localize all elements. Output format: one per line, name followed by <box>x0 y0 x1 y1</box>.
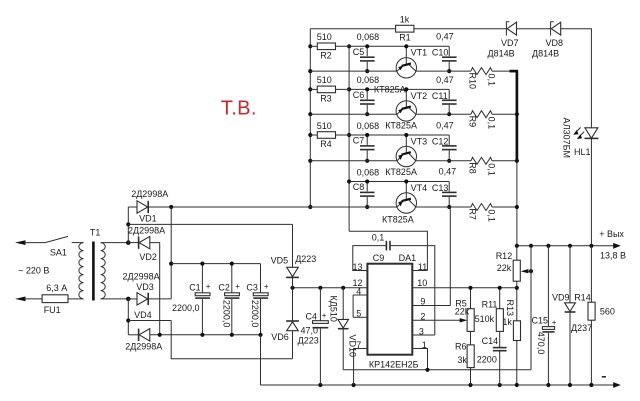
svg-text:0,068: 0,068 <box>357 75 380 85</box>
wire minus drop to ground rail <box>260 335 262 385</box>
wire base line row1 <box>336 45 450 47</box>
svg-text:9: 9 <box>420 297 425 307</box>
pin 9 <box>412 207 450 307</box>
svg-text:0,47: 0,47 <box>439 166 457 176</box>
wire top rail <box>310 29 591 128</box>
diode VD3 <box>123 272 172 306</box>
svg-text:R1: R1 <box>399 32 411 42</box>
wire row3 to output <box>492 160 517 162</box>
svg-text:C1: C1 <box>189 283 201 293</box>
svg-text:2Д2998А: 2Д2998А <box>125 341 162 351</box>
svg-text:+: + <box>552 318 557 327</box>
transistor VT2 <box>385 87 427 130</box>
pin 7 <box>354 340 368 385</box>
svg-text:0,068: 0,068 <box>357 167 380 177</box>
svg-text:2Д2998А: 2Д2998А <box>128 225 165 235</box>
svg-text:R2: R2 <box>320 50 332 60</box>
wire HL1 to output rail <box>590 139 592 246</box>
diode VD10 <box>329 288 358 370</box>
zener diode VD8 <box>532 22 563 59</box>
svg-text:2200,0: 2200,0 <box>222 300 232 328</box>
resistor R8 <box>468 157 497 175</box>
node gnd-C15 <box>546 383 550 387</box>
svg-text:R12: R12 <box>496 251 513 261</box>
svg-text:1: 1 <box>422 340 427 350</box>
svg-text:VD6: VD6 <box>271 332 289 342</box>
capacitor C1 <box>172 262 211 337</box>
transistor VT4 <box>382 179 427 224</box>
capacitor C12 <box>432 120 457 163</box>
svg-text:0,1: 0,1 <box>486 117 496 130</box>
svg-text:10: 10 <box>417 278 427 288</box>
pin 1 <box>412 340 427 370</box>
resistor R4 <box>310 121 335 149</box>
svg-text:0,47: 0,47 <box>436 75 454 85</box>
node gnd-pin7 <box>352 383 356 387</box>
svg-text:VT2: VT2 <box>411 91 428 101</box>
svg-text:+: + <box>264 282 269 291</box>
transformer T1 secondary <box>101 243 106 299</box>
node gnd-R13 <box>515 383 519 387</box>
node rail-VD9 <box>568 244 572 248</box>
resistor R11 <box>475 286 504 347</box>
node basebus row2 <box>347 87 351 91</box>
resistor R1 <box>396 14 414 42</box>
svg-text:SA1: SA1 <box>50 247 67 257</box>
resistor R2 <box>310 32 335 60</box>
svg-text:~ 220 В: ~ 220 В <box>18 265 49 275</box>
wire row4 right <box>416 206 471 208</box>
resistor R13 <box>502 300 520 386</box>
switch SA1 <box>15 236 84 257</box>
node basebus row4 <box>347 179 351 183</box>
capacitor C5 <box>353 32 379 73</box>
svg-text:R3: R3 <box>320 94 332 104</box>
wire row1 right <box>416 70 471 72</box>
svg-text:Т.В.: Т.В. <box>221 97 257 119</box>
node pin12-VD10 <box>341 286 345 290</box>
node gnd-R6 <box>468 383 472 387</box>
svg-text:11: 11 <box>418 262 427 272</box>
diode VD9 <box>552 246 592 385</box>
node gnd-C4 <box>318 383 322 387</box>
fuse FU1 <box>15 283 84 315</box>
svg-text:2200,0: 2200,0 <box>250 300 260 328</box>
resistor R6 <box>455 341 474 385</box>
svg-text:R11: R11 <box>482 300 498 310</box>
pin 5 <box>353 295 367 319</box>
text T.B. red label <box>221 97 257 119</box>
pin 13 <box>353 262 363 272</box>
wire AC1 to VD5 line <box>128 223 292 225</box>
svg-text:VD9: VD9 <box>552 293 570 303</box>
transistor VT3 <box>385 133 427 177</box>
svg-text:13,8 В: 13,8 В <box>600 250 626 260</box>
wire secondary top to AC1 node <box>101 240 131 245</box>
svg-text:C4: C4 <box>306 311 318 321</box>
svg-text:VD4: VD4 <box>134 310 152 320</box>
svg-text:VD7: VD7 <box>501 38 519 48</box>
svg-text:HL1: HL1 <box>574 147 591 157</box>
svg-text:R10: R10 <box>468 73 478 90</box>
svg-text:C2: C2 <box>218 283 230 293</box>
pin 12 <box>293 278 368 288</box>
wire row3 left <box>310 160 396 162</box>
svg-text:КД510: КД510 <box>329 296 339 322</box>
resistor R14 <box>574 246 615 385</box>
svg-text:R7: R7 <box>468 208 478 220</box>
node pin12-VD5 <box>290 286 294 290</box>
svg-text:0,1: 0,1 <box>486 74 496 87</box>
text mains voltage <box>18 265 49 275</box>
node bus-R2 <box>308 44 312 48</box>
svg-text:3k: 3k <box>457 355 467 365</box>
node VD2-VD4 minus <box>158 333 162 337</box>
wire base bus <box>348 46 350 231</box>
capacitor C6 <box>353 75 379 116</box>
svg-text:+: + <box>206 282 211 291</box>
svg-text:Д237: Д237 <box>571 323 592 333</box>
capacitor C14 <box>477 336 507 385</box>
svg-text:22k: 22k <box>497 263 512 273</box>
svg-text:47,0: 47,0 <box>301 326 319 336</box>
svg-text:0,068: 0,068 <box>357 121 380 131</box>
svg-text:C5: C5 <box>353 47 365 57</box>
pin 2 arrow to R5 <box>412 312 467 323</box>
svg-text:R14: R14 <box>574 293 591 303</box>
node rail-R12 <box>515 244 519 248</box>
wire pin1-wiper line <box>343 368 531 372</box>
svg-text:510k: 510k <box>475 314 495 324</box>
capacitor C9 <box>353 232 435 335</box>
svg-text:C11: C11 <box>432 91 448 101</box>
wire row3 right <box>416 160 471 162</box>
wire row1 to output <box>492 70 518 72</box>
node rail-HL1-R14 <box>589 244 593 248</box>
svg-text:5: 5 <box>356 309 361 319</box>
svg-text:Д814В: Д814В <box>532 49 559 59</box>
wire plus vertical upper <box>169 207 173 299</box>
svg-text:2200: 2200 <box>477 354 497 364</box>
svg-text:КТ825А: КТ825А <box>385 121 417 131</box>
wire output vertical (thick) <box>516 71 519 161</box>
svg-text:0,068: 0,068 <box>357 32 380 42</box>
svg-text:C12: C12 <box>432 136 449 146</box>
svg-text:Д223: Д223 <box>295 254 316 264</box>
diode VD5 <box>271 224 317 287</box>
svg-text:R13: R13 <box>505 300 515 317</box>
pin 4 <box>353 286 367 296</box>
svg-text:АЛ307БМ: АЛ307БМ <box>562 118 572 159</box>
node gnd-C14 <box>498 383 502 387</box>
transformer T1 primary <box>79 228 101 299</box>
svg-text:R9: R9 <box>468 116 478 128</box>
diode VD4 <box>125 310 260 351</box>
svg-text:VT1: VT1 <box>411 48 428 58</box>
svg-text:2Д2998А: 2Д2998А <box>131 189 168 199</box>
wire left collector bus <box>309 29 311 207</box>
svg-text:R4: R4 <box>320 139 332 149</box>
svg-text:VD5: VD5 <box>271 256 289 266</box>
capacitor C2 <box>218 262 240 337</box>
svg-text:2200,0: 2200,0 <box>172 303 200 313</box>
wire row4 to output <box>492 206 517 208</box>
wire AC2 to VD6 link <box>128 320 171 322</box>
zener diode VD7 <box>488 22 519 59</box>
node bus-R4 <box>308 133 312 137</box>
svg-text:Д814В: Д814В <box>488 49 515 59</box>
node bus-row3 <box>308 159 312 163</box>
svg-text:FU1: FU1 <box>44 305 61 315</box>
resistor R9 <box>468 111 497 129</box>
svg-text:C10: C10 <box>432 48 449 58</box>
svg-text:560: 560 <box>600 307 615 317</box>
svg-text:0,1: 0,1 <box>486 209 496 222</box>
svg-text:510: 510 <box>317 75 332 85</box>
resistor R3 <box>310 75 335 103</box>
svg-text:0,47: 0,47 <box>436 120 454 130</box>
resistor R7 <box>468 204 497 222</box>
svg-text:VD10: VD10 <box>348 335 358 358</box>
wire output rail <box>517 243 621 249</box>
diode VD2 <box>128 225 165 334</box>
svg-text:DA1: DA1 <box>399 253 417 263</box>
resistor R10 <box>468 68 497 89</box>
node bus-row2 <box>308 112 312 116</box>
LED HL1 <box>562 118 599 159</box>
svg-text:VD2: VD2 <box>139 252 157 262</box>
pin 10 <box>412 278 517 288</box>
svg-text:2: 2 <box>420 312 425 322</box>
node pin12-C4 <box>318 286 322 290</box>
wire ground rail <box>261 382 621 388</box>
svg-text:C15: C15 <box>532 316 549 326</box>
svg-text:КР142ЕН2Б: КР142ЕН2Б <box>369 359 419 369</box>
wire row2 left <box>310 113 396 115</box>
svg-text:+: + <box>235 282 240 291</box>
node pin10-R12R13 <box>515 286 519 290</box>
wire base line row3 <box>336 134 450 136</box>
node basebus row1 <box>347 44 351 48</box>
capacitor C7 <box>353 121 379 163</box>
svg-text:R8: R8 <box>468 162 478 174</box>
svg-text:C14: C14 <box>482 336 499 346</box>
node R8-output <box>515 159 519 163</box>
resistor R5 trimmer <box>455 286 474 345</box>
wire secondary bottom to AC2 node <box>101 297 131 302</box>
wire AC2 vertical <box>126 299 130 335</box>
svg-text:C8: C8 <box>353 182 365 192</box>
svg-text:VD8: VD8 <box>546 38 564 48</box>
svg-text:C6: C6 <box>353 90 365 100</box>
capacitor C13 <box>432 166 457 209</box>
node gnd-VD9 <box>568 383 572 387</box>
wire AC1 vertical <box>126 207 130 243</box>
text output label <box>599 229 626 260</box>
wire row2 to output <box>492 113 517 115</box>
svg-text:0,1: 0,1 <box>486 163 496 176</box>
node R9-output <box>515 112 519 116</box>
capacitor C11 <box>432 75 457 116</box>
svg-text:VD1: VD1 <box>139 213 157 223</box>
node R7-output <box>515 205 519 209</box>
transistor VT1 <box>374 44 427 94</box>
svg-text:C3: C3 <box>246 283 258 293</box>
node bus-row1 <box>308 69 312 73</box>
svg-text:4: 4 <box>356 286 361 296</box>
svg-text:КТ825А: КТ825А <box>385 167 417 177</box>
svg-text:VT3: VT3 <box>411 136 428 146</box>
svg-text:510: 510 <box>317 32 332 42</box>
wire base line row4 <box>349 181 449 183</box>
node basebus row3 <box>347 133 351 137</box>
svg-text:0,47: 0,47 <box>436 32 454 42</box>
wiper of R12 <box>521 246 533 370</box>
capacitor C15 <box>532 246 557 385</box>
svg-text:R6: R6 <box>455 341 467 351</box>
svg-text:2Д2998А: 2Д2998А <box>123 272 160 282</box>
wire VD6 to AC2 link <box>171 321 292 359</box>
text minus <box>602 376 606 378</box>
diode VD6 <box>271 288 318 359</box>
svg-text:13: 13 <box>353 262 363 272</box>
node gnd-R14 <box>589 383 593 387</box>
svg-text:T1: T1 <box>90 228 101 238</box>
node bus-row4 <box>308 205 312 209</box>
svg-text:+: + <box>322 311 327 320</box>
svg-text:1k: 1k <box>400 14 410 24</box>
transformer T1 core <box>92 242 95 301</box>
wire row2 right <box>416 113 471 115</box>
svg-text:C9: C9 <box>373 253 385 263</box>
potentiometer R12 <box>496 246 521 321</box>
svg-text:0,1: 0,1 <box>372 232 385 242</box>
svg-text:VT4: VT4 <box>411 183 428 193</box>
wire row1 left <box>310 70 396 72</box>
svg-text:6,3 А: 6,3 А <box>46 283 67 293</box>
svg-text:C7: C7 <box>353 136 365 146</box>
capacitor C3 <box>246 264 269 337</box>
pin 11 <box>412 262 427 272</box>
svg-text:510: 510 <box>317 121 332 131</box>
node rail-wiper <box>529 244 533 248</box>
node rail-C15 <box>546 244 550 248</box>
svg-text:C13: C13 <box>432 183 449 193</box>
op-amp U1 regulator DA1 body <box>367 253 418 369</box>
pin 3 <box>412 326 435 336</box>
node VD1-plus vertical <box>169 205 173 209</box>
wire base line row2 <box>336 88 450 90</box>
wire output vertical (thin) <box>516 161 518 246</box>
svg-text:22k: 22k <box>455 306 470 316</box>
node bus-R3 <box>308 87 312 91</box>
wire raw plus rail to caps <box>171 263 260 265</box>
svg-text:3: 3 <box>419 326 424 336</box>
svg-text:VD3: VD3 <box>136 282 154 292</box>
capacitor C4 <box>301 288 329 385</box>
capacitor C8 <box>353 167 379 209</box>
svg-text:Д223: Д223 <box>298 335 319 345</box>
capacitor C10 <box>432 32 457 73</box>
svg-text:470,0: 470,0 <box>536 332 546 355</box>
wire base bus to pin 11 <box>349 231 427 270</box>
svg-text:КТ825А: КТ825А <box>382 215 414 225</box>
diode VD1 <box>128 189 396 223</box>
svg-text:+ Вых: + Вых <box>599 229 624 239</box>
